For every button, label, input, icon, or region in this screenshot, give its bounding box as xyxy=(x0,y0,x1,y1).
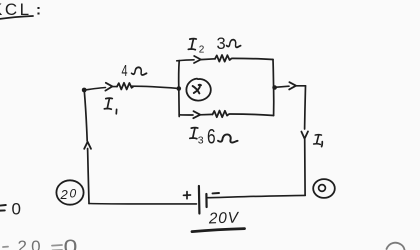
current label I1 (left) xyxy=(104,98,116,114)
node junction left (dot) xyxy=(82,88,87,93)
resistor R3 6ohm (zigzag) xyxy=(213,111,229,118)
wire: box bottom branch xyxy=(179,114,273,116)
battery minus sign xyxy=(213,192,220,194)
svg-text:20: 20 xyxy=(18,237,45,250)
underline of 20V xyxy=(192,229,245,232)
svg-text:0: 0 xyxy=(64,236,78,250)
value label 3 ohm xyxy=(217,35,241,53)
wire: top-left horizontal (node to box) xyxy=(85,86,179,90)
wire: box right to corner xyxy=(275,86,306,88)
current label I3 and value 6 ohm xyxy=(190,124,238,148)
resistor R1 4ohm (zigzag) xyxy=(117,83,133,90)
current arrow I1 down (right wire) xyxy=(301,131,308,138)
svg-text:2: 2 xyxy=(60,187,69,202)
current arrow (box to right corner) xyxy=(289,82,296,89)
wire: left vertical xyxy=(84,91,89,204)
battery plus sign xyxy=(184,192,191,199)
svg-text:6: 6 xyxy=(207,124,216,148)
svg-text:20V: 20V xyxy=(208,209,240,227)
wire: box left side xyxy=(178,61,181,117)
node label 20 (circled) xyxy=(56,180,83,204)
svg-text:3: 3 xyxy=(217,35,226,53)
current arrow I3 on bottom branch xyxy=(193,111,200,118)
current arrow up (left wire) xyxy=(84,142,91,149)
svg-text:3: 3 xyxy=(198,135,204,147)
stray faint mark bottom-right xyxy=(387,243,405,250)
node label 0 (circled) xyxy=(313,179,335,198)
wire: box top branch xyxy=(177,58,273,60)
node junction at box right (dot) xyxy=(272,85,277,90)
resistor R2 3ohm (zigzag) xyxy=(215,55,231,62)
current label I1 (right) xyxy=(314,134,323,146)
wire: box right side xyxy=(272,60,275,116)
battery V1: long plate (+) xyxy=(198,186,201,214)
wire: bottom right (battery to corner) xyxy=(208,195,305,197)
heading KCL: xyxy=(0,0,41,20)
wire: right vertical xyxy=(304,86,307,196)
partial equation at bottom edge (cut off) xyxy=(3,236,77,250)
svg-text:4: 4 xyxy=(122,62,128,79)
current arrow on top-left wire xyxy=(105,83,112,91)
wire: bottom left (corner to battery) xyxy=(89,203,197,206)
svg-text:0: 0 xyxy=(70,187,77,201)
node junction at box left (dot) xyxy=(177,86,182,91)
current arrow I2 on top branch xyxy=(194,56,201,63)
svg-text:0: 0 xyxy=(12,200,21,219)
node X (circled x) xyxy=(186,79,210,101)
equation "= 0" (left edge, cut off) xyxy=(0,200,21,219)
svg-text::: : xyxy=(36,2,41,19)
svg-text:2: 2 xyxy=(199,45,205,56)
value label 4 ohm xyxy=(122,62,147,79)
current label I2 xyxy=(188,38,204,55)
battery V1: short plate (-) xyxy=(205,194,207,207)
